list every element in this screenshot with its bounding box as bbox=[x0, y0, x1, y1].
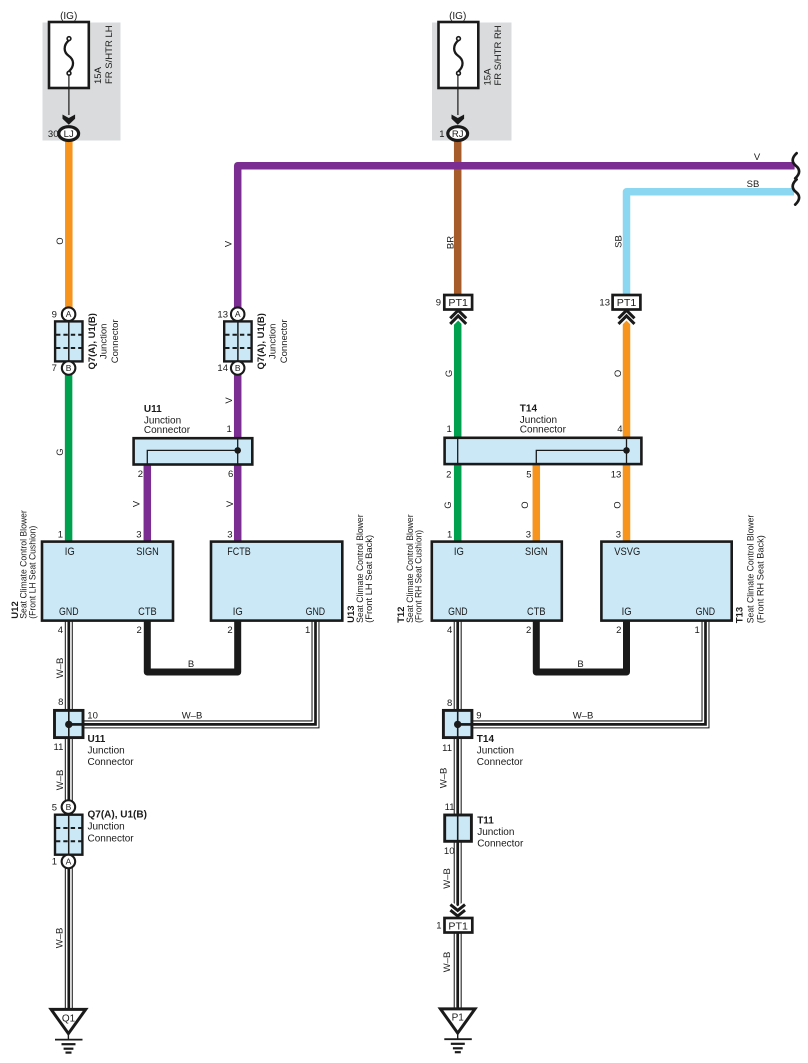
fuse 15A FR S/HTR RH body bbox=[439, 22, 479, 88]
svg-text:(Front LH Seat Cushion): (Front LH Seat Cushion) bbox=[27, 526, 38, 619]
terminal circle A pin 13 bbox=[231, 307, 245, 321]
svg-text:A: A bbox=[66, 309, 72, 319]
svg-text:14: 14 bbox=[217, 363, 228, 374]
svg-text:V: V bbox=[131, 500, 142, 507]
svg-text:Connector: Connector bbox=[144, 425, 191, 436]
grid box Q7(A),U1(B) right bbox=[224, 321, 251, 361]
svg-text:Connector: Connector bbox=[279, 319, 290, 363]
svg-text:(Front LH Seat Back): (Front LH Seat Back) bbox=[364, 535, 375, 623]
svg-text:W–B: W–B bbox=[442, 868, 453, 889]
svg-text:Connector: Connector bbox=[477, 839, 524, 850]
svg-text:V: V bbox=[754, 152, 761, 163]
svg-text:(Front RH Seat Back): (Front RH Seat Back) bbox=[756, 535, 767, 623]
wire V junction B(14) to U11 pin 1 bbox=[234, 375, 242, 440]
U11 internal branch to pin2 bbox=[147, 450, 237, 464]
svg-text:FR S/HTR LH: FR S/HTR LH bbox=[104, 25, 115, 84]
svg-text:B: B bbox=[188, 659, 194, 670]
wire W-B U12 GND to ground Q1 bbox=[65, 619, 73, 1009]
svg-text:2: 2 bbox=[446, 469, 451, 480]
junction box T11 bbox=[445, 815, 472, 841]
svg-text:30: 30 bbox=[48, 129, 59, 140]
svg-text:G: G bbox=[444, 370, 455, 377]
svg-text:SB: SB bbox=[747, 179, 760, 190]
svg-text:Junction: Junction bbox=[477, 745, 514, 756]
svg-text:Connector: Connector bbox=[477, 757, 524, 768]
fuse 15A FR S/HTR LH body bbox=[49, 22, 89, 88]
fuse arrow LH bbox=[63, 115, 76, 125]
wire W-B U13 GND branch to U11 bbox=[82, 619, 316, 724]
svg-text:5: 5 bbox=[526, 469, 531, 480]
svg-text:A: A bbox=[235, 309, 241, 319]
svg-text:9: 9 bbox=[52, 309, 57, 320]
fuse output wire LH bbox=[68, 75, 70, 115]
svg-text:11: 11 bbox=[442, 743, 452, 754]
U11 internal wire pin1 to pin6 bbox=[237, 439, 239, 464]
wire B T12 CTB to T13 IG bbox=[536, 619, 626, 672]
wire G (green) junction B to U12 IG bbox=[65, 375, 73, 543]
svg-text:W–B: W–B bbox=[442, 952, 453, 973]
fuse output wire RH bbox=[457, 75, 459, 115]
terminal circle A pin 9 bbox=[62, 307, 76, 321]
wire O T14 pin 13 to T13 VSVG bbox=[623, 463, 631, 543]
svg-text:9: 9 bbox=[476, 711, 481, 722]
svg-text:T14: T14 bbox=[477, 734, 495, 745]
break symbol wire V right edge bbox=[793, 153, 799, 178]
svg-text:1: 1 bbox=[439, 129, 444, 140]
terminal circle A pin 1 bbox=[62, 855, 76, 869]
svg-text:W–B: W–B bbox=[55, 928, 66, 949]
component box U13 bbox=[211, 542, 342, 621]
svg-text:1: 1 bbox=[447, 529, 452, 540]
svg-text:4: 4 bbox=[58, 625, 63, 636]
svg-text:1: 1 bbox=[58, 529, 63, 540]
ground P1 bbox=[440, 1009, 475, 1052]
svg-text:3: 3 bbox=[136, 529, 141, 540]
wire O T14 pin 5 to T12 SIGN bbox=[533, 463, 541, 543]
svg-text:U11: U11 bbox=[144, 404, 162, 415]
svg-text:RJ: RJ bbox=[452, 129, 464, 140]
connector RJ oval bbox=[448, 127, 468, 141]
T14 bar body bbox=[445, 438, 642, 464]
T14 internal branch to pin5 bbox=[536, 450, 626, 463]
svg-text:13: 13 bbox=[611, 469, 622, 480]
svg-text:W–B: W–B bbox=[573, 711, 594, 722]
svg-text:11: 11 bbox=[54, 742, 64, 753]
fuse block background RH bbox=[432, 23, 512, 141]
svg-text:IG: IG bbox=[622, 606, 632, 618]
svg-text:Junction: Junction bbox=[98, 324, 109, 359]
svg-text:G: G bbox=[55, 448, 66, 455]
component box T12 bbox=[432, 542, 562, 621]
fuse element LH bbox=[65, 40, 73, 71]
connector box PT1 pin 1 bbox=[445, 918, 473, 933]
wire G T14 pin 2 to T12 IG bbox=[454, 463, 462, 543]
grid box Q7(A),U1(B) lower bbox=[55, 815, 82, 855]
svg-text:8: 8 bbox=[58, 697, 63, 708]
svg-text:T11: T11 bbox=[477, 816, 494, 827]
svg-text:1: 1 bbox=[52, 857, 57, 868]
svg-text:B: B bbox=[235, 363, 241, 373]
svg-text:(Front RH Seat Cushion): (Front RH Seat Cushion) bbox=[414, 530, 425, 623]
terminal circle B pin 14 bbox=[231, 361, 245, 375]
svg-text:(IG): (IG) bbox=[449, 11, 466, 22]
svg-text:V: V bbox=[225, 500, 236, 507]
svg-text:SIGN: SIGN bbox=[525, 546, 548, 558]
svg-text:P1: P1 bbox=[452, 1013, 465, 1024]
chevron pair PT1 pin 13 bbox=[619, 310, 635, 324]
svg-text:6: 6 bbox=[228, 469, 233, 480]
wire BR (brown) RJ to PT1 pin 9 bbox=[454, 140, 462, 297]
svg-text:O: O bbox=[613, 370, 624, 377]
svg-text:5: 5 bbox=[52, 802, 57, 813]
T14 internal wire pin4 to pin13 bbox=[626, 439, 628, 464]
svg-text:FCTB: FCTB bbox=[227, 546, 251, 558]
T14 internal junction dot bbox=[623, 447, 630, 454]
svg-text:Connector: Connector bbox=[88, 834, 135, 845]
wire G PT1 pin 9 to T14 pin 1 bbox=[454, 317, 462, 440]
svg-text:BR: BR bbox=[445, 236, 456, 249]
svg-text:2: 2 bbox=[616, 625, 621, 636]
svg-text:1: 1 bbox=[447, 424, 452, 435]
svg-text:IG: IG bbox=[454, 546, 464, 558]
chevron pair PT1 pin 9 bbox=[450, 310, 466, 324]
svg-text:Connector: Connector bbox=[88, 757, 135, 768]
svg-text:1: 1 bbox=[436, 920, 441, 931]
svg-text:U11: U11 bbox=[88, 734, 106, 745]
svg-text:B: B bbox=[66, 802, 72, 812]
svg-text:T13: T13 bbox=[735, 607, 746, 623]
svg-text:B: B bbox=[66, 363, 72, 373]
U11 stripe to branch bbox=[69, 723, 84, 726]
wire O PT1 pin 13 to T14 pin 4 bbox=[623, 317, 631, 440]
svg-text:Q7(A), U1(B): Q7(A), U1(B) bbox=[88, 810, 147, 821]
svg-text:W–B: W–B bbox=[439, 768, 450, 789]
svg-text:2: 2 bbox=[526, 625, 531, 636]
T14 junction dot bbox=[454, 721, 461, 728]
junction box U11 small bbox=[55, 710, 84, 737]
svg-text:IG: IG bbox=[65, 546, 75, 558]
T14 stripe through box bbox=[457, 710, 459, 738]
svg-text:GND: GND bbox=[59, 606, 79, 618]
wire V (violet) main run with corner bbox=[238, 166, 795, 308]
ground Q1 bbox=[51, 1009, 86, 1052]
svg-text:7: 7 bbox=[52, 363, 57, 374]
svg-text:10: 10 bbox=[444, 846, 455, 857]
svg-text:T14: T14 bbox=[520, 404, 538, 415]
T14 stripe to branch bbox=[458, 723, 473, 726]
svg-text:GND: GND bbox=[696, 606, 716, 618]
connector box PT1 pin 9 bbox=[444, 295, 472, 310]
svg-text:SB: SB bbox=[613, 235, 624, 248]
svg-text:4: 4 bbox=[617, 424, 622, 435]
svg-text:G: G bbox=[443, 501, 454, 508]
svg-text:1: 1 bbox=[305, 625, 310, 636]
svg-text:Junction: Junction bbox=[268, 324, 279, 359]
fuse arrow RH bbox=[452, 115, 465, 125]
wire V U11 pin 6 to U13 FCTB bbox=[234, 463, 242, 543]
svg-text:PT1: PT1 bbox=[617, 298, 637, 309]
T11 stripe through box bbox=[457, 815, 459, 841]
svg-text:CTB: CTB bbox=[527, 606, 546, 618]
U11 internal junction dot bbox=[234, 447, 241, 454]
svg-text:B: B bbox=[577, 659, 583, 670]
wire B U12 CTB to U13 IG bbox=[147, 619, 237, 672]
U11 junction dot bbox=[65, 721, 72, 728]
connector LJ oval bbox=[59, 127, 79, 141]
svg-text:Junction: Junction bbox=[477, 827, 514, 838]
svg-text:4: 4 bbox=[447, 625, 452, 636]
svg-text:O: O bbox=[520, 501, 531, 508]
svg-text:V: V bbox=[224, 240, 235, 247]
svg-text:8: 8 bbox=[447, 698, 452, 709]
svg-text:GND: GND bbox=[448, 606, 468, 618]
svg-text:FR S/HTR RH: FR S/HTR RH bbox=[493, 25, 504, 85]
terminal circle B pin 5 bbox=[62, 800, 76, 814]
wire O (orange) LJ to junction A bbox=[65, 140, 73, 309]
svg-text:Junction: Junction bbox=[88, 822, 125, 833]
svg-text:3: 3 bbox=[227, 529, 232, 540]
svg-text:1: 1 bbox=[227, 424, 232, 435]
svg-text:Q1: Q1 bbox=[62, 1014, 76, 1025]
grid box Q7(A),U1(B) left bbox=[55, 321, 82, 361]
U11 stripe through box bbox=[68, 710, 70, 738]
svg-text:W–B: W–B bbox=[55, 770, 66, 791]
svg-text:2: 2 bbox=[138, 469, 143, 480]
wire V U11 pin 2 to U12 SIGN bbox=[144, 463, 152, 543]
svg-text:V: V bbox=[224, 397, 235, 404]
component box T13 bbox=[601, 542, 731, 621]
svg-text:(IG): (IG) bbox=[60, 11, 77, 22]
svg-text:Connector: Connector bbox=[110, 319, 121, 363]
svg-text:1: 1 bbox=[695, 625, 700, 636]
U11 bar body bbox=[134, 438, 253, 464]
connector box PT1 pin 13 bbox=[613, 295, 641, 310]
svg-text:GND: GND bbox=[306, 606, 326, 618]
wire W-B T12 GND to ground P1 bbox=[454, 619, 462, 1009]
svg-text:13: 13 bbox=[599, 298, 610, 309]
wire W-B T13 GND branch to T14 bbox=[471, 619, 706, 724]
chevron pair PT1 pin 1 (down) bbox=[450, 905, 465, 916]
svg-text:Connector: Connector bbox=[520, 424, 567, 435]
svg-text:W–B: W–B bbox=[55, 658, 66, 679]
svg-text:O: O bbox=[55, 237, 66, 244]
break symbol wire SB right edge bbox=[793, 179, 799, 204]
svg-text:3: 3 bbox=[526, 529, 531, 540]
fuse element RH bbox=[454, 40, 462, 71]
T14 internal wire pin1 to pin2 bbox=[457, 439, 459, 464]
svg-text:9: 9 bbox=[436, 298, 441, 309]
svg-text:Junction: Junction bbox=[88, 745, 125, 756]
wire SB (sky blue) run to PT1 pin 13 bbox=[627, 192, 795, 296]
svg-text:W–B: W–B bbox=[182, 711, 203, 722]
svg-text:VSVG: VSVG bbox=[614, 546, 640, 558]
svg-text:13: 13 bbox=[217, 309, 228, 320]
svg-text:O: O bbox=[612, 501, 623, 508]
svg-text:PT1: PT1 bbox=[448, 298, 468, 309]
junction box T14 small bbox=[443, 710, 472, 737]
svg-text:A: A bbox=[66, 856, 72, 866]
svg-text:IG: IG bbox=[233, 606, 243, 618]
svg-text:Q7(A), U1(B): Q7(A), U1(B) bbox=[256, 313, 267, 369]
svg-text:Q7(A), U1(B): Q7(A), U1(B) bbox=[87, 313, 98, 369]
svg-text:15A: 15A bbox=[93, 66, 104, 84]
svg-text:2: 2 bbox=[227, 625, 232, 636]
svg-text:SIGN: SIGN bbox=[136, 546, 159, 558]
fuse block background LH bbox=[43, 23, 121, 141]
svg-text:11: 11 bbox=[445, 802, 455, 813]
component box U12 bbox=[42, 542, 173, 621]
svg-text:CTB: CTB bbox=[138, 606, 157, 618]
svg-text:3: 3 bbox=[616, 529, 621, 540]
svg-text:2: 2 bbox=[137, 625, 142, 636]
svg-text:PT1: PT1 bbox=[448, 921, 468, 932]
svg-text:LJ: LJ bbox=[64, 129, 74, 140]
terminal circle B pin 7 bbox=[62, 361, 76, 375]
svg-text:10: 10 bbox=[87, 711, 98, 722]
